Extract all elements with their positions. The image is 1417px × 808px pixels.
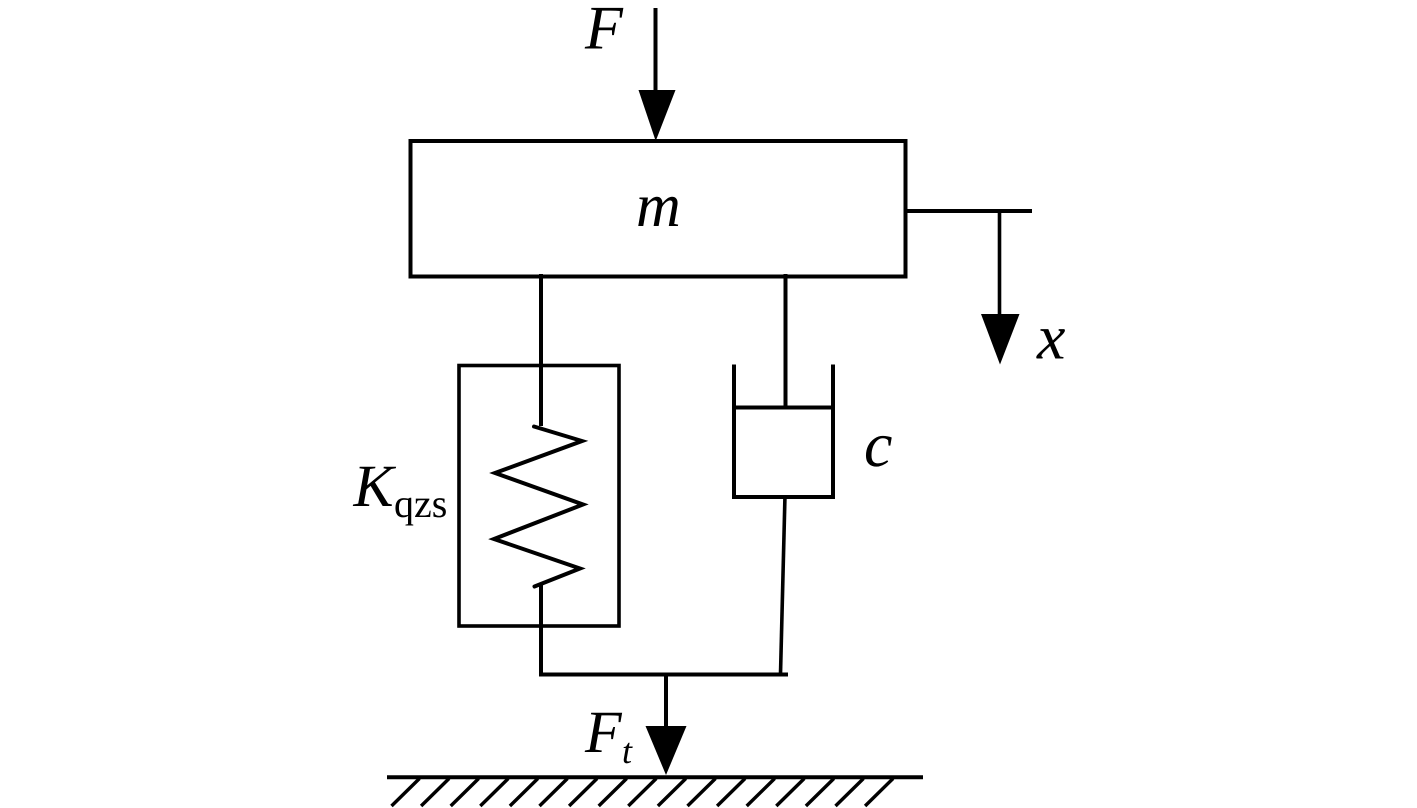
wire from damper to bottom rail [781, 495, 786, 674]
label F (applied force) [585, 8, 624, 49]
label m [638, 197, 678, 226]
wire from mass bottom to spring [539, 274, 543, 426]
label c [866, 436, 892, 467]
ground hatching [392, 779, 894, 807]
transmitted force arrow Ft head [646, 726, 687, 775]
force arrow F shaft [654, 8, 658, 93]
damper cup left wall [732, 365, 736, 498]
label Kqzs [353, 467, 396, 506]
label x [1036, 329, 1065, 358]
label Ft [585, 713, 622, 752]
spring enclosure box [459, 366, 619, 627]
bottom rail wire [539, 673, 788, 677]
damper rod [784, 274, 788, 407]
damper cup bottom [732, 495, 835, 499]
mass block m [411, 141, 906, 277]
transmitted force arrow Ft shaft [664, 674, 668, 728]
wire from spring to bottom rail [539, 585, 543, 676]
damper piston [732, 406, 835, 410]
damper cup right wall [831, 365, 835, 498]
spring Kqzs zigzag [494, 427, 583, 587]
displacement arrow x head [981, 314, 1020, 365]
force arrow F head [639, 90, 676, 141]
ground line [387, 775, 923, 779]
displacement arrow x shaft [998, 209, 1002, 316]
wire from mass right edge [904, 209, 1033, 213]
